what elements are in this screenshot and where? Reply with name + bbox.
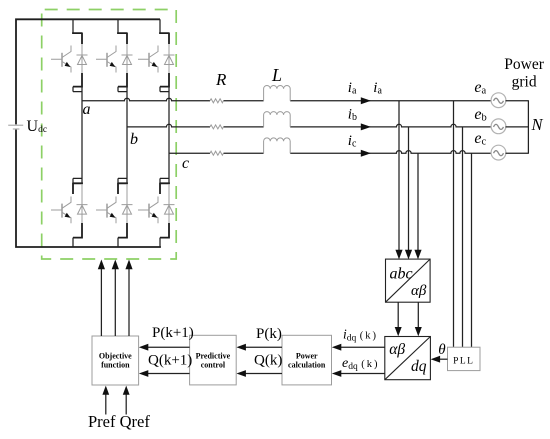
svg-text:a: a <box>83 101 91 118</box>
svg-text:αβ: αβ <box>389 341 405 358</box>
svg-text:function: function <box>101 361 130 370</box>
svg-text:b: b <box>130 131 138 148</box>
svg-text:edq(k): edq(k) <box>342 356 379 372</box>
svg-text:Power: Power <box>504 56 544 73</box>
svg-text:R: R <box>215 70 227 89</box>
svg-text:N: N <box>531 115 544 134</box>
svg-text:grid: grid <box>512 74 537 91</box>
svg-text:c: c <box>182 155 189 172</box>
svg-text:P(k): P(k) <box>256 326 282 342</box>
svg-text:Objective: Objective <box>99 352 132 361</box>
svg-text:P(k+1): P(k+1) <box>152 325 194 341</box>
svg-text:Q(k): Q(k) <box>254 353 282 369</box>
svg-text:Pref Qref: Pref Qref <box>88 412 150 431</box>
svg-text:αβ: αβ <box>411 283 427 299</box>
svg-text:abc: abc <box>390 266 413 283</box>
svg-text:Q(k+1): Q(k+1) <box>148 353 192 369</box>
svg-text:θ: θ <box>438 342 446 358</box>
svg-text:Power: Power <box>296 352 318 361</box>
svg-text:calculation: calculation <box>288 361 326 370</box>
svg-text:control: control <box>201 361 226 370</box>
svg-text:Predictive: Predictive <box>196 352 231 361</box>
svg-text:PLL: PLL <box>453 357 474 367</box>
svg-text:dq: dq <box>411 358 427 375</box>
svg-text:L: L <box>271 65 282 85</box>
